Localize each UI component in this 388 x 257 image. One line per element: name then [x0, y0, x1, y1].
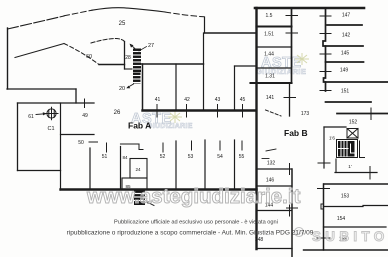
wall x324 — [323, 127, 325, 168]
svg-text:147: 147 — [342, 13, 351, 19]
svg-text:154: 154 — [337, 216, 346, 222]
svg-text:51: 51 — [102, 154, 108, 160]
wall y205 right — [363, 205, 388, 207]
svg-text:60: 60 — [86, 54, 92, 60]
boundary: top curve — [92, 8, 165, 12]
tick 51 — [106, 143, 108, 152]
svg-text:152: 152 — [349, 120, 358, 126]
boundary: step vertical — [204, 17, 206, 33]
svg-text:28: 28 — [125, 55, 131, 61]
wall x176 lower — [175, 141, 177, 190]
shower box X — [347, 129, 358, 139]
tick room141 — [284, 97, 296, 99]
divider y47 — [257, 46, 292, 48]
wall y103 — [18, 102, 95, 104]
svg-text:84: 84 — [122, 155, 128, 160]
wall y127 — [324, 126, 346, 128]
watermark ASTE GIUDIZIARIE top — [256, 53, 309, 76]
tick 152 — [370, 108, 372, 120]
wall y66 stub — [235, 65, 257, 67]
tick 55 — [241, 141, 243, 150]
divider x176 — [175, 64, 177, 111]
svg-text:Pubblicazione ufficiale ad esc: Pubblicazione ufficiale ad esclusivo uso… — [114, 220, 278, 226]
tick on x323 y188 — [318, 188, 330, 190]
stair wall x124 — [124, 42, 126, 70]
room labels — [28, 13, 357, 244]
tick on x292 — [287, 207, 298, 209]
wall x234.5 lower — [234, 140, 236, 190]
hook right of stair — [360, 141, 365, 158]
svg-text:50: 50 — [78, 140, 84, 146]
svg-text:1.31: 1.31 — [265, 74, 275, 80]
outbuilding bottom wall — [18, 170, 61, 172]
svg-text:Fab B: Fab B — [284, 128, 308, 138]
wall x120.5 — [120, 147, 122, 190]
wall x90 — [89, 148, 91, 190]
Fab A band left wall — [142, 64, 144, 111]
stair arrow up — [131, 45, 137, 51]
svg-text:20: 20 — [119, 86, 125, 92]
tick 54 — [219, 141, 221, 150]
svg-text:C1: C1 — [47, 126, 54, 132]
svg-text:26: 26 — [114, 110, 121, 116]
closet 85 — [122, 178, 147, 190]
Fab B wall x291 upper — [291, 8, 293, 83]
svg-text:1.44: 1.44 — [264, 52, 274, 58]
boundary: left vertical — [7, 28, 9, 89]
wall x205 lower — [204, 140, 206, 190]
boundary: lower slanted line — [15, 44, 64, 58]
svg-text:146: 146 — [266, 178, 275, 184]
stair arrow down — [128, 84, 134, 88]
svg-text:55: 55 — [239, 154, 245, 160]
divider x234 — [234, 66, 236, 111]
staircase lower flight — [133, 73, 141, 84]
staircase upper flight — [133, 49, 141, 73]
wall y172 — [335, 172, 377, 174]
svg-text:61: 61 — [28, 114, 34, 120]
tick 49 — [84, 99, 86, 108]
boundary: lower dash-dot descent — [64, 44, 99, 65]
svg-text:142: 142 — [342, 33, 351, 39]
arrow 61 — [36, 113, 46, 116]
tick 50 — [89, 141, 98, 143]
boundary: upper dashes — [64, 10, 92, 16]
svg-text:41: 41 — [155, 97, 161, 103]
wall x336 stub — [335, 159, 337, 173]
wall y134.5 — [61, 134, 95, 136]
dashed diagonal — [266, 110, 282, 116]
divider x203 — [203, 33, 205, 111]
dashes room 132 — [266, 149, 276, 151]
svg-text:1.51: 1.51 — [264, 32, 274, 38]
svg-text:GIUDIZIARIE: GIUDIZIARIE — [147, 123, 193, 130]
door jamb — [139, 144, 143, 150]
door lintel — [121, 143, 140, 145]
svg-text:53: 53 — [188, 154, 194, 160]
wall y64 right — [141, 63, 204, 65]
svg-text:ripubblicazione o riproduzione: ripubblicazione o riproduzione a scopo c… — [67, 230, 314, 237]
tick on x323 y238 — [317, 237, 330, 239]
wall y64 left — [99, 64, 125, 66]
door ticks under band — [156, 105, 158, 118]
divider y68 — [257, 67, 292, 69]
svg-text:42: 42 — [184, 97, 190, 103]
right rooms dividers — [327, 24, 362, 26]
stair landing — [125, 68, 134, 70]
wall x323 lower — [323, 184, 325, 250]
svg-text:27: 27 — [148, 43, 154, 49]
svg-text:24: 24 — [135, 167, 141, 172]
svg-text:145: 145 — [341, 51, 350, 57]
svg-text:148: 148 — [255, 237, 264, 243]
outbuilding right wall — [60, 103, 62, 190]
svg-text:141: 141 — [266, 95, 275, 101]
svg-text:149: 149 — [340, 68, 349, 74]
Fab B lower-left dividers — [257, 168, 292, 170]
Fab A band bottom wall — [143, 109, 257, 111]
Fab B outer top wall — [255, 7, 364, 10]
tick 53 — [191, 141, 193, 150]
tick y172 — [369, 167, 371, 180]
svg-text:1.5: 1.5 — [266, 13, 273, 19]
wall step x76 — [75, 89, 77, 103]
corridor right wall x325 with jogs — [323, 8, 326, 91]
boundary: upper slanted line — [8, 16, 65, 29]
svg-text:54: 54 — [217, 154, 223, 160]
wall y184 — [324, 183, 388, 185]
svg-text:SUBITO: SUBITO — [312, 229, 388, 244]
boundary: inner dashed curve — [91, 39, 125, 44]
watermark ASTE GIUDIZIARIE middle — [131, 111, 193, 130]
boundary: wall to block — [205, 32, 257, 34]
svg-text:43: 43 — [215, 97, 221, 103]
svg-text:Fab A: Fab A — [128, 121, 151, 131]
ticks on x291 — [286, 15, 298, 17]
lower stair arrow — [147, 202, 154, 206]
wall y227 — [324, 226, 387, 228]
stair block hatch — [337, 140, 358, 158]
outbuilding left wall — [17, 103, 19, 171]
svg-text:www.astegiudiziarie.it: www.astegiudiziarie.it — [86, 185, 301, 208]
svg-text:1'6: 1'6 — [329, 136, 335, 141]
boundary: dashed to step — [165, 12, 204, 17]
bottom wall y250 — [304, 249, 388, 251]
jog on x323 — [321, 204, 324, 209]
watermark subito — [295, 228, 388, 245]
divider y83 — [251, 82, 292, 84]
wall y206 — [324, 206, 364, 208]
svg-text:25: 25 — [119, 21, 126, 27]
room 152 top wall — [337, 113, 388, 115]
svg-text:151: 151 — [341, 89, 350, 95]
tick x324 — [318, 162, 330, 164]
svg-text:1': 1' — [348, 164, 352, 169]
closet 24 — [130, 159, 147, 179]
wall x292 lower — [291, 169, 293, 257]
tick 52 — [162, 143, 164, 152]
leader 27 — [139, 47, 147, 52]
divider y26 — [257, 25, 292, 27]
lower staircase below wall — [134, 191, 145, 206]
symbol C1 circle — [45, 107, 58, 119]
main bottom wall — [61, 188, 257, 190]
svg-text:52: 52 — [160, 154, 166, 160]
svg-text:49: 49 — [82, 113, 88, 119]
svg-text:153: 153 — [341, 194, 350, 200]
svg-text:45: 45 — [240, 97, 246, 103]
wall y89 — [7, 88, 76, 90]
ticks on x325 — [320, 15, 331, 17]
svg-text:173: 173 — [301, 111, 310, 117]
svg-text:132: 132 — [267, 161, 276, 167]
Fab B left wall — [255, 8, 257, 249]
wall x289 room141 — [289, 83, 291, 116]
